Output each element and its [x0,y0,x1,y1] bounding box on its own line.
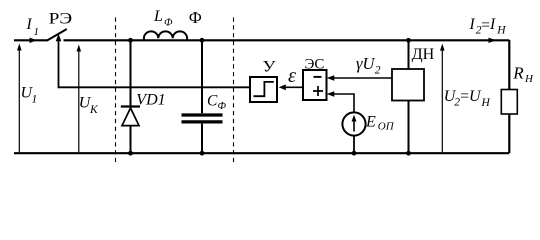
svg-text:R: R [512,63,524,82]
svg-text:ОП: ОП [378,121,395,133]
svg-text:Н: Н [496,25,506,37]
svg-text:1: 1 [34,26,40,38]
svg-text:1: 1 [32,94,38,106]
svg-text:L: L [153,8,163,25]
svg-text:Н: Н [481,97,491,109]
svg-text:C: C [207,93,218,110]
svg-text:У: У [263,59,276,76]
svg-text:I: I [489,16,496,33]
svg-text:2: 2 [375,65,381,77]
svg-text:ЭС: ЭС [305,57,325,73]
svg-text:Ф: Ф [189,8,202,27]
svg-text:VD1: VD1 [136,91,165,108]
svg-text:ДН: ДН [412,46,435,63]
svg-text:I: I [469,16,476,33]
svg-text:РЭ: РЭ [49,11,73,28]
svg-text:I: I [26,16,33,33]
svg-text:U: U [469,88,482,105]
svg-text:ε: ε [288,65,296,87]
svg-text:Ф: Ф [164,17,173,28]
svg-text:=: = [460,88,469,105]
svg-text:Ф: Ф [218,101,227,112]
svg-text:К: К [89,104,99,116]
svg-text:=: = [481,17,490,34]
svg-text:Н: Н [524,73,534,85]
svg-text:γU: γU [356,54,376,73]
svg-text:E: E [365,113,376,130]
